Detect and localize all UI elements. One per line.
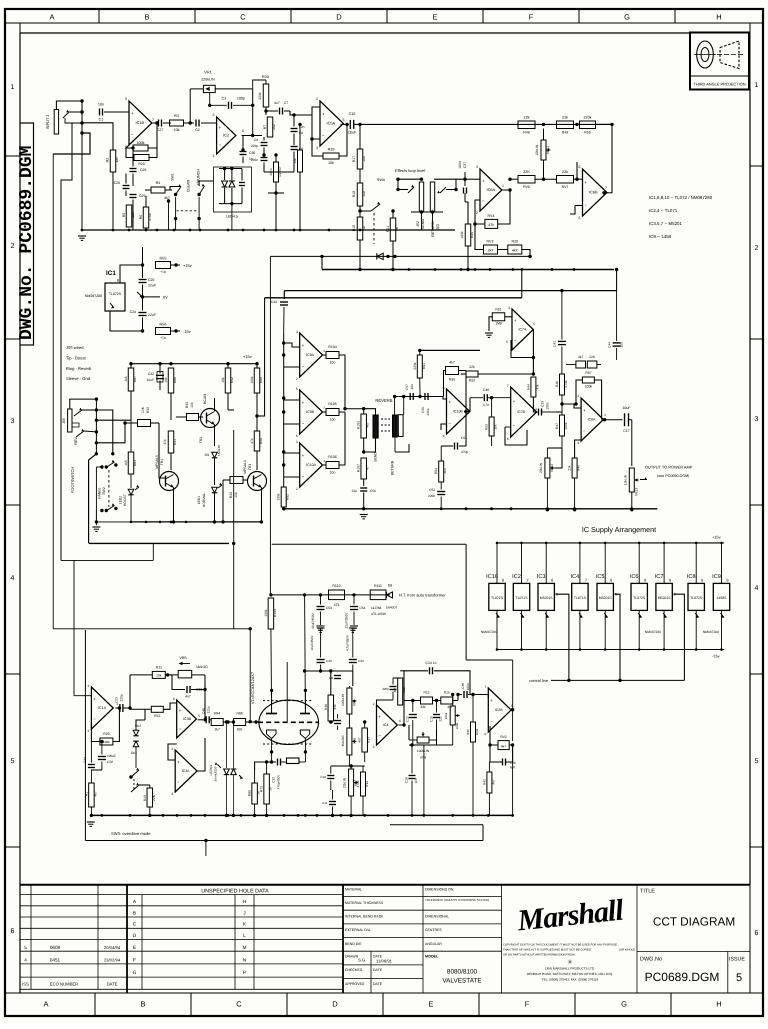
svg-text:IC10B: IC10B <box>453 410 463 414</box>
resistor R13 4k7 <box>358 720 371 762</box>
svg-text:10uF: 10uF <box>622 406 631 410</box>
capacitor C2 <box>195 120 216 133</box>
svg-text:-15v: -15v <box>183 329 191 334</box>
transistor TR2 BC184 <box>199 394 220 446</box>
return jack J03 <box>430 178 466 237</box>
svg-text:control line: control line <box>529 678 548 683</box>
svg-text:7: 7 <box>152 118 154 122</box>
svg-text:4n7: 4n7 <box>185 695 191 699</box>
svg-text:IC2,4 -- TL071: IC2,4 -- TL071 <box>649 208 678 213</box>
feedback RV4 47k <box>475 190 510 228</box>
reverb bus line A <box>284 268 618 293</box>
capacitor C26 electrolytic <box>114 174 130 197</box>
svg-text:R12: R12 <box>154 714 160 718</box>
svg-text:−: − <box>179 726 182 731</box>
svg-text:IC8A: IC8A <box>588 418 596 422</box>
svg-text:2: 2 <box>88 729 90 733</box>
overdrive ground rail <box>90 814 514 817</box>
svg-text:47k: 47k <box>488 223 494 227</box>
svg-text:22kLIN: 22kLIN <box>343 777 347 788</box>
svg-text:+: + <box>177 759 180 764</box>
supply block IC2 TL071S <box>512 543 530 650</box>
svg-text:4k7: 4k7 <box>491 779 495 784</box>
svg-text:E: E <box>432 13 437 22</box>
footswitch ground <box>92 467 100 531</box>
svg-text:3: 3 <box>476 165 478 169</box>
svg-text:R47: R47 <box>555 423 559 429</box>
svg-text:100k: 100k <box>444 712 448 719</box>
svg-text:R92: R92 <box>286 494 290 500</box>
svg-text:100k: 100k <box>460 231 464 239</box>
svg-text:3: 3 <box>296 330 298 334</box>
wire column to ground cluster <box>264 153 294 230</box>
svg-text:IC1B: IC1B <box>136 120 145 125</box>
svg-text:COPYRIGHT EXISTS ON THIS DOCUM: COPYRIGHT EXISTS ON THIS DOCUMENT. IT MU… <box>503 944 617 947</box>
reverb transformer windings <box>364 409 398 452</box>
svg-text:F: F <box>133 957 136 963</box>
svg-text:MPSA13: MPSA13 <box>243 460 247 473</box>
svg-text:C57: C57 <box>405 384 409 390</box>
svg-text:4k7: 4k7 <box>578 355 583 359</box>
capacitor C32 470p <box>255 759 287 790</box>
svg-text:R52: R52 <box>230 377 234 383</box>
svg-text:R46: R46 <box>555 381 559 387</box>
svg-text:TR3: TR3 <box>248 464 252 471</box>
svg-text:−: − <box>302 474 305 479</box>
switch SW3 <box>129 758 150 792</box>
svg-text:IC6B: IC6B <box>589 190 598 195</box>
svg-text:BEND DIE: BEND DIE <box>345 942 362 946</box>
svg-text:5: 5 <box>511 704 513 708</box>
op-amp IC3A <box>168 738 205 796</box>
svg-text:2k7: 2k7 <box>214 728 220 732</box>
svg-text:TOLERANCE (UNLESS OTHERWISE ST: TOLERANCE (UNLESS OTHERWISE STATED) <box>425 898 489 902</box>
svg-text:ECO NUMBER: ECO NUMBER <box>50 982 78 987</box>
label effects loop level <box>395 168 425 173</box>
svg-text:10k: 10k <box>190 402 194 408</box>
resistor R47 100k <box>555 404 568 448</box>
svg-text:3k3: 3k3 <box>443 468 447 473</box>
capacitor C31 4n7 <box>172 675 207 699</box>
wire return bus down <box>411 210 443 230</box>
svg-text:7: 7 <box>585 578 587 583</box>
svg-text:SWA: SWA <box>377 178 386 182</box>
left margin column with row numbers <box>5 23 20 993</box>
svg-text:C: C <box>236 1000 242 1009</box>
svg-text:Effects loop level: Effects loop level <box>395 168 425 173</box>
svg-text:R21: R21 <box>386 226 390 232</box>
svg-text:CENTRES: CENTRES <box>425 928 442 932</box>
svg-text:R32: R32 <box>146 407 150 413</box>
svg-text:22p: 22p <box>352 489 358 493</box>
label CLEAN <box>186 180 190 193</box>
resistor R106 10o <box>322 412 345 475</box>
svg-text:−: − <box>131 132 134 137</box>
svg-text:LED8,9: LED8,9 <box>209 764 213 775</box>
diode D7 on supply bus <box>377 253 390 259</box>
svg-text:470p: 470p <box>461 450 469 454</box>
capacitor C43 reverb feed <box>271 291 288 333</box>
svg-text:DWG.No. PC0689.DGM: DWG.No. PC0689.DGM <box>17 146 37 340</box>
svg-text:220p: 220p <box>251 144 258 148</box>
svg-text:1: 1 <box>11 84 15 91</box>
svg-text:0608: 0608 <box>50 945 61 950</box>
svg-text:82k: 82k <box>237 728 243 732</box>
inner frame right edge <box>749 33 751 885</box>
capacitor C29 <box>130 194 146 230</box>
svg-text:J05 wired: J05 wired <box>66 345 84 350</box>
svg-text:220p: 220p <box>119 694 123 701</box>
resistor R38 tone <box>293 123 303 230</box>
svg-text:3: 3 <box>755 416 759 423</box>
svg-text:IC3A: IC3A <box>182 769 190 773</box>
transistor TR3 MPSA13 <box>243 460 267 523</box>
label H.T. from auto transformer <box>399 592 446 597</box>
svg-text:C15: C15 <box>430 716 434 722</box>
svg-text:VR5: VR5 <box>179 656 186 660</box>
svg-text:VR11: VR11 <box>546 146 550 154</box>
op-amp IC2 <box>213 113 252 158</box>
svg-text:8: 8 <box>502 578 504 583</box>
svg-text:IC1,6,8,10 -- TL072 / NM087280: IC1,6,8,10 -- TL072 / NM087280 <box>649 195 713 200</box>
divider resistor R18 10k <box>352 169 366 206</box>
svg-text:TITLE: TITLE <box>640 889 655 895</box>
svg-text:5: 5 <box>506 340 508 344</box>
svg-text:4k7: 4k7 <box>358 737 362 742</box>
svg-text:IC10A: IC10A <box>306 463 316 467</box>
svg-text:220: 220 <box>439 716 443 721</box>
resistor R16 4k7 <box>441 691 460 710</box>
svg-text:RETURN: RETURN <box>431 221 435 237</box>
svg-text:220k: 220k <box>258 92 262 100</box>
resistor R5 22k <box>122 205 135 227</box>
op-amp IC7B <box>505 384 538 445</box>
svg-text:+: + <box>448 399 451 404</box>
capacitor C22 <box>83 742 102 777</box>
svg-text:-15v: -15v <box>712 654 720 659</box>
svg-text:47k: 47k <box>163 439 167 445</box>
svg-text:220k: 220k <box>413 362 417 370</box>
svg-text:2: 2 <box>296 377 298 381</box>
svg-text:R14: R14 <box>365 781 369 787</box>
svg-text:BOOST: BOOST <box>123 494 127 506</box>
svg-text:R91: R91 <box>422 363 426 369</box>
resistor R10 22K <box>143 785 156 817</box>
op-amp IC6A <box>465 165 512 215</box>
svg-text:TL072S: TL072S <box>491 596 504 600</box>
svg-text:REVERB: REVERB <box>375 398 392 403</box>
svg-text:R1: R1 <box>84 792 88 796</box>
svg-text:4k7: 4k7 <box>93 791 97 796</box>
svg-text:VR13: VR13 <box>634 488 638 496</box>
long wire footswitch to IC1A <box>61 543 153 695</box>
resistor R12 10k <box>130 703 177 718</box>
svg-text:−: − <box>513 423 516 428</box>
svg-text:6: 6 <box>242 129 244 133</box>
svg-text:3mmLEDS: 3mmLEDS <box>214 767 218 782</box>
svg-text:NORMAL: NORMAL <box>202 493 206 507</box>
control line <box>529 594 684 683</box>
svg-text:22uF: 22uF <box>148 284 156 288</box>
svg-text:3: 3 <box>171 792 173 796</box>
unspecified hole data table <box>133 885 343 993</box>
svg-text:−: − <box>378 733 381 738</box>
title cell CCT DIAGRAM <box>637 889 750 952</box>
feedback resistor 100k <box>126 121 159 151</box>
svg-text:DATE: DATE <box>107 982 118 987</box>
wire input node <box>80 99 83 134</box>
svg-text:C1: C1 <box>99 118 104 122</box>
op-amp IC8A <box>562 394 623 445</box>
svg-text:Ring - Reverb: Ring - Reverb <box>66 366 92 371</box>
svg-text:2: 2 <box>755 245 759 252</box>
svg-text:2: 2 <box>296 487 298 491</box>
svg-text:220p: 220p <box>426 408 430 415</box>
svg-text:−: − <box>584 203 587 208</box>
svg-text:IC1A: IC1A <box>98 706 107 710</box>
svg-text:470p/450V: 470p/450V <box>277 775 281 790</box>
svg-text:C30: C30 <box>249 151 255 155</box>
svg-text:NM087280: NM087280 <box>481 630 497 634</box>
resistor R33 10k <box>176 402 203 421</box>
svg-text:22k: 22k <box>568 465 572 471</box>
svg-text:R22: R22 <box>229 492 233 498</box>
resistor R55 to +15v <box>141 247 192 274</box>
svg-text:R56: R56 <box>160 323 167 327</box>
svg-text:C30: C30 <box>541 401 545 407</box>
resistor R22 10k <box>221 477 247 524</box>
resistor R36 33k <box>324 695 337 724</box>
resistor R29 100k <box>91 706 121 745</box>
capacitor C25 <box>130 146 147 186</box>
svg-text:C8: C8 <box>329 676 333 680</box>
svg-text:3: 3 <box>373 745 375 749</box>
resistor R3 10k <box>170 114 195 132</box>
svg-text:BC184: BC184 <box>203 394 207 404</box>
svg-text:H: H <box>716 13 721 22</box>
svg-text:NM087280: NM087280 <box>703 630 719 634</box>
capacitor C56 22p <box>352 488 376 510</box>
svg-text:10k: 10k <box>221 377 225 383</box>
svg-text:J02: J02 <box>416 221 420 227</box>
mid ground rail <box>320 255 614 271</box>
svg-text:5: 5 <box>755 758 759 765</box>
op-amp IC9B <box>284 387 325 438</box>
svg-text:C14 1n: C14 1n <box>426 661 437 665</box>
svg-text:F: F <box>529 13 534 22</box>
svg-text:3: 3 <box>296 440 298 444</box>
svg-text:TEL: (0908) 375411. FAX: (0908: TEL: (0908) 375411. FAX: (0908) 376118 <box>542 978 599 982</box>
resistor R107 47 <box>357 458 370 486</box>
svg-text:100n: 100n <box>466 683 470 690</box>
svg-text:+: + <box>513 399 516 404</box>
svg-text:1: 1 <box>535 407 537 411</box>
top grid letter strip <box>5 9 763 23</box>
svg-text:R49: R49 <box>562 131 568 135</box>
svg-text:6: 6 <box>507 437 509 441</box>
IC supply arrangement title <box>582 525 656 534</box>
svg-text:+: + <box>583 408 586 413</box>
svg-text:10k: 10k <box>362 156 366 162</box>
svg-text:LOG: LOG <box>455 722 459 729</box>
svg-text:C33: C33 <box>326 659 332 663</box>
resistor R111 <box>370 584 386 616</box>
svg-text:100k: 100k <box>103 740 110 744</box>
svg-text:C29: C29 <box>139 194 145 198</box>
svg-text:+: + <box>179 708 182 713</box>
wire HT to tube plate <box>304 595 307 714</box>
svg-text:SW3- overdrive mode: SW3- overdrive mode <box>111 831 151 836</box>
feedback resistor R39 10k <box>310 123 348 165</box>
svg-text:10n: 10n <box>98 103 104 107</box>
capacitor C4 220p <box>251 137 268 157</box>
svg-text:IC5A: IC5A <box>327 121 336 126</box>
treble pot VR8 220kLIN <box>341 686 357 726</box>
svg-text:22kLIN: 22kLIN <box>539 462 543 473</box>
svg-text:C46: C46 <box>483 388 489 392</box>
svg-text:IC5: IC5 <box>596 574 605 580</box>
svg-text:IC6A: IC6A <box>487 187 496 192</box>
svg-text:10k: 10k <box>174 128 180 132</box>
svg-text:220kLIN: 220kLIN <box>341 693 345 706</box>
svg-text:2k7: 2k7 <box>488 249 494 253</box>
svg-text:N: N <box>243 957 247 963</box>
svg-text:C34: C34 <box>358 659 364 663</box>
svg-text:22K: 22K <box>589 355 596 359</box>
svg-text:D: D <box>332 1000 338 1009</box>
footswitch jack J05 <box>62 399 96 493</box>
svg-text:+15v: +15v <box>712 535 721 540</box>
svg-text:CHECKED: CHECKED <box>345 968 363 972</box>
+15v rail footswitch <box>129 354 258 365</box>
svg-text:R51: R51 <box>495 308 501 312</box>
svg-text:220n: 220n <box>251 158 258 162</box>
svg-text:100k: 100k <box>137 141 145 145</box>
resistor R44 47k <box>526 377 539 412</box>
title block outer top edge <box>20 884 750 886</box>
output level pot VR13 <box>623 468 647 511</box>
supply block IC5 M5201S <box>596 543 618 650</box>
svg-text:1k5: 1k5 <box>124 376 128 381</box>
svg-text:8: 8 <box>551 578 553 583</box>
svg-text:3: 3 <box>213 154 215 158</box>
LED1 normal <box>197 483 222 524</box>
svg-text:8080/8100: 8080/8100 <box>447 969 478 976</box>
resistor R67 1k5 <box>124 364 137 421</box>
svg-text:1MLOG: 1MLOG <box>196 665 208 669</box>
svg-text:PC0689.DGM: PC0689.DGM <box>645 970 720 984</box>
top section ground rail <box>81 229 455 232</box>
H.T. feed line <box>269 593 390 596</box>
capacitor C11 <box>322 790 336 817</box>
svg-text:C12: C12 <box>405 716 409 722</box>
svg-text:R84: R84 <box>214 712 220 716</box>
reverb tank return coil <box>395 397 409 453</box>
divider resistor R17 10k <box>352 123 366 169</box>
inner frame left edge <box>19 33 21 993</box>
capacitor C7 4n7 <box>264 101 294 115</box>
svg-text:C53: C53 <box>326 606 332 610</box>
clipping diodes LED4 LED5 <box>219 167 245 230</box>
resistor R84 2k7 <box>211 712 233 732</box>
svg-text:IC9 -- 1458: IC9 -- 1458 <box>649 234 672 239</box>
chorus depth pot VR12 <box>539 448 562 511</box>
diode D9 <box>205 445 221 485</box>
svg-text:R20: R20 <box>512 240 519 244</box>
top row resistor R49 22k <box>535 116 579 135</box>
svg-text:2: 2 <box>213 113 215 117</box>
svg-text:D: D <box>133 933 137 939</box>
svg-text:+: + <box>302 400 305 405</box>
svg-text:22K: 22K <box>523 170 530 174</box>
svg-text:C52: C52 <box>429 488 435 492</box>
svg-text:+1g: +1g <box>160 270 166 274</box>
svg-text:J03: J03 <box>436 224 440 230</box>
label SW3 overdrive mode <box>111 831 151 836</box>
svg-text:IC10: IC10 <box>486 574 498 580</box>
resistor R11 20k <box>130 666 172 709</box>
right margin column with row numbers <box>750 23 763 993</box>
svg-text:C23: C23 <box>114 697 118 703</box>
feedback top wire C14 1n <box>400 661 470 725</box>
svg-text:1k: 1k <box>362 226 366 230</box>
svg-text:R111: R111 <box>374 584 382 588</box>
svg-text:10o: 10o <box>330 361 336 365</box>
svg-text:10uF: 10uF <box>348 131 357 135</box>
resistor R85 1k <box>248 770 261 817</box>
capacitor C36 100n <box>458 683 488 698</box>
svg-text:3: 3 <box>577 441 579 445</box>
svg-text:220n: 220n <box>382 687 389 691</box>
svg-text:UNSPECIFIED HOLE DATA: UNSPECIFIED HOLE DATA <box>201 888 269 894</box>
svg-text:SEND: SEND <box>374 452 378 462</box>
svg-text:H: H <box>243 899 247 905</box>
svg-text:SW1: SW1 <box>171 173 175 181</box>
svg-text:1M: 1M <box>115 157 119 162</box>
svg-text:G: G <box>621 1000 627 1009</box>
svg-text:R45: R45 <box>470 232 474 238</box>
svg-text:ISS: ISS <box>22 982 29 987</box>
svg-text:R5: R5 <box>122 213 126 218</box>
svg-text:22k: 22k <box>524 116 530 120</box>
svg-text:G: G <box>133 970 137 976</box>
svg-text:(OR WHOLE: (OR WHOLE <box>619 949 635 952</box>
feedback resistor R20b <box>126 148 157 166</box>
label NM087280 under IC9 <box>703 630 719 634</box>
svg-text:THAN THAT OF WHICH IT IS SUPPL: THAN THAT OF WHICH IT IS SUPPLIED AND MU… <box>503 949 591 952</box>
svg-text:R2: R2 <box>106 158 110 163</box>
svg-text:C56: C56 <box>370 489 376 493</box>
svg-text:−: − <box>302 421 305 426</box>
svg-text:100k: 100k <box>264 609 268 617</box>
svg-text:R52: R52 <box>469 379 475 383</box>
capacitor C28 100uF <box>98 740 116 770</box>
svg-text:100uF: 100uF <box>107 754 116 758</box>
svg-text:DENBIGH ROAD, BLETCHLEY, MILTO: DENBIGH ROAD, BLETCHLEY, MILTON KEYNES, … <box>527 972 613 976</box>
svg-text:10uF/350V: 10uF/350V <box>310 634 314 650</box>
resistor R66 10k <box>164 368 177 420</box>
capacitor C5 220n <box>251 158 268 173</box>
resistor R60 4k7 <box>566 355 601 368</box>
title block ISS/ECO/DATE revision table <box>20 885 343 993</box>
return signal wire with C57 C50 <box>393 384 447 416</box>
svg-text:10uF: 10uF <box>146 378 154 382</box>
svg-text:R54: R54 <box>434 468 438 474</box>
svg-text:C26: C26 <box>114 181 120 185</box>
svg-text:D9: D9 <box>205 453 209 457</box>
svg-text:IC4: IC4 <box>383 723 389 727</box>
svg-text:−: − <box>514 338 517 343</box>
